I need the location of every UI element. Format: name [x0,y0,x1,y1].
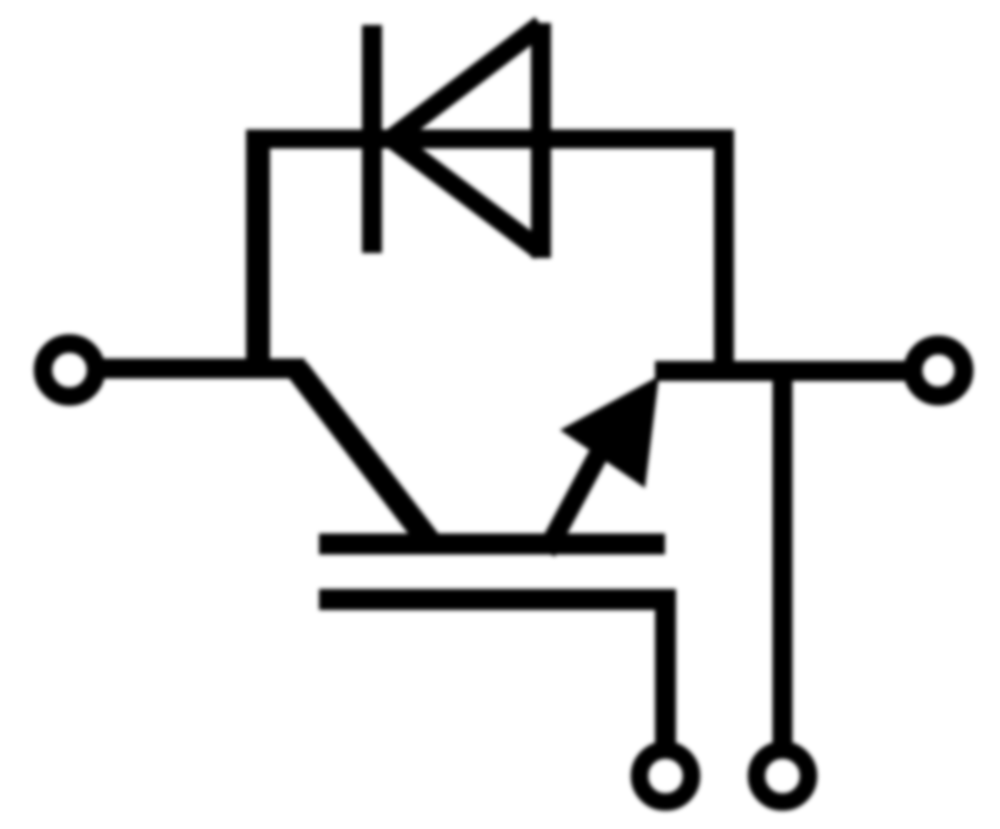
wire left vertical riser to diode cathode net [246,130,270,378]
gate terminal G (bottom middle open circle) [640,750,692,802]
diode D1 cathode bar [362,25,382,253]
wire top horizontal (diode branch) [246,130,734,149]
emitter terminal E (right open circle) [913,345,964,396]
collector terminal C (left open circle) [43,344,96,397]
IGBT Q1 channel bar (upper plate) [319,534,665,555]
IGBT Q1 collector slant [297,369,432,545]
auxiliary emitter terminal E1 (bottom right open circle) [757,750,809,802]
wire auxiliary emitter vertical [773,371,793,745]
wire collector lead (left horizontal) [93,359,305,379]
diode D1 triangle (anode, pointing left) [392,23,541,258]
IGBT Q1 gate bar (lower plate) with bend to gate lead [319,600,666,746]
IGBT Q1 emitter arrowhead [560,376,659,488]
IGBT Q1 emitter arrow shaft [546,448,602,552]
wire emitter lead (right horizontal) [655,361,913,381]
wire right vertical drop from top branch [714,130,734,380]
